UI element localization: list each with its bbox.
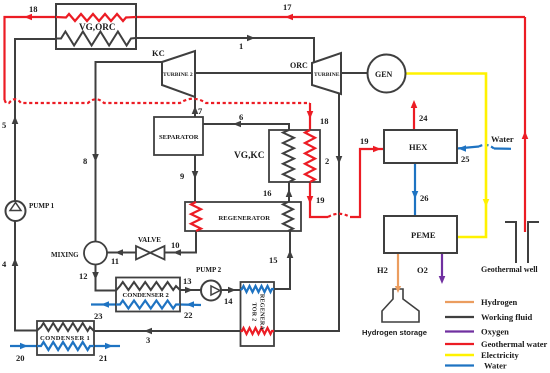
svg-text:20: 20 [16, 353, 25, 363]
svg-text:22: 22 [184, 310, 193, 320]
svg-text:REGENERA: REGENERA [259, 294, 265, 331]
svg-text:5: 5 [2, 120, 6, 130]
svg-text:TOR 2: TOR 2 [251, 303, 257, 322]
svg-text:1: 1 [239, 41, 243, 51]
pump 1 triangle [10, 203, 21, 211]
node 26 arrow [412, 191, 419, 199]
condenser 1 black coil [37, 323, 94, 331]
orange arrow into storage [397, 287, 399, 289]
svg-text:Water: Water [491, 134, 514, 144]
pump 2 triangle [211, 286, 220, 295]
node 1 arrow [247, 35, 255, 42]
svg-text:11: 11 [111, 256, 119, 266]
wire: turbine2 outlet to ORC turbine [195, 72, 312, 74]
wire: KC line 16 regenerator to VG,KC [288, 182, 290, 202]
svg-text:2: 2 [325, 156, 329, 166]
svg-text:Oxygen: Oxygen [481, 327, 509, 337]
legend: Water [445, 364, 474, 366]
svg-text:8: 8 [83, 156, 87, 166]
svg-text:PEME: PEME [411, 230, 436, 240]
wire: purple oxygen line O2 [441, 253, 443, 278]
purple arrow down [439, 276, 446, 284]
svg-text:VG,ORC: VG,ORC [79, 22, 116, 32]
wire: working fluid condenser1 to pump1 to VG,ORC lines 4,5 [15, 39, 56, 331]
node 3 arrow [144, 328, 152, 335]
svg-text:19: 19 [360, 136, 369, 146]
svg-text:Geothermal well: Geothermal well [481, 265, 538, 274]
svg-text:Hydrogen: Hydrogen [481, 297, 517, 307]
svg-text:23: 23 [94, 311, 103, 321]
svg-text:9: 9 [180, 171, 184, 181]
node 18 arrow top left [24, 14, 32, 21]
wire: geothermal red line 19 VG,KC down [310, 182, 328, 217]
wire: KC line 10 regenerator to valve [165, 231, 197, 253]
label REGENERATOR 2 rotated [251, 294, 265, 331]
node 17 arrow [285, 14, 293, 21]
svg-text:CONDENSER 2: CONDENSER 2 [123, 292, 170, 299]
svg-text:12: 12 [79, 271, 88, 281]
node 10 arrow [173, 249, 181, 256]
wire: geothermal red dashed line with hops [5, 99, 311, 103]
wire: blue water into HEX line 25 with dashed hop over yellow [494, 147, 511, 150]
wire: KC line 14 pump2 to regenerator2 [221, 289, 241, 291]
svg-text:19: 19 [316, 195, 325, 205]
svg-text:SEPARATOR: SEPARATOR [159, 134, 199, 141]
wire: KC line 11 valve to mixing [107, 252, 137, 254]
svg-text:Geothermal water: Geothermal water [481, 339, 548, 349]
wire: geothermal red into VG,KC line 18 [309, 103, 311, 130]
svg-text:TURBINE: TURBINE [314, 72, 340, 78]
svg-text:GEN: GEN [375, 70, 393, 79]
svg-text:ORC: ORC [290, 61, 308, 70]
svg-text:CONDENSER 1: CONDENSER 1 [40, 335, 90, 342]
generator GEN circle [368, 55, 406, 93]
svg-text:VALVE: VALVE [138, 236, 161, 244]
condenser 2 box [116, 278, 180, 312]
svg-text:18: 18 [320, 116, 329, 126]
node 2 arrow [336, 156, 343, 164]
regenerator red coil [191, 202, 201, 231]
svg-text:VG,KC: VG,KC [234, 151, 265, 161]
node 13 arrow [185, 287, 193, 294]
node 12 arrow [92, 272, 99, 280]
separator box [154, 117, 203, 155]
mixing circle [84, 242, 107, 265]
svg-text:O2: O2 [417, 265, 428, 275]
legend: Hydrogen [445, 301, 474, 303]
svg-text:H2: H2 [377, 265, 388, 275]
svg-text:16: 16 [263, 188, 272, 198]
wire: KC line 6 VG,KC to separator [203, 124, 289, 130]
ORC turbine [312, 53, 341, 94]
wire: KC line 8 turbine2 to mixing [96, 62, 163, 242]
svg-text:25: 25 [461, 154, 470, 164]
node 18 arrow into VG,KC [307, 111, 314, 119]
wire: yellow electricity GEN to PEME [405, 74, 486, 238]
wire: working fluid line 2/3 ORC turbine down and left to condenser1 [94, 94, 339, 332]
svg-text:Electricity: Electricity [481, 350, 520, 360]
node 20 arrow [20, 343, 28, 350]
VG,ORC black coil [56, 32, 136, 46]
svg-text:KC: KC [152, 48, 165, 58]
wire: geothermal red line 18 VG,ORC exit left and down [5, 17, 57, 100]
wire: orange hydrogen line H2 [397, 253, 399, 287]
turbine 2 KC [162, 51, 195, 97]
valve bowtie [136, 246, 165, 260]
wire: KC line 15 regenerator2 to regenerator [274, 231, 290, 289]
svg-text:15: 15 [269, 255, 278, 265]
node 19 arrow down [307, 196, 314, 204]
svg-text:MIXING: MIXING [51, 251, 79, 259]
node 19 arrow into HEX [373, 146, 381, 153]
wire: blue line 26 HEX to PEME [414, 163, 416, 216]
regenerator 2 blue coil [241, 286, 275, 292]
svg-text:3: 3 [146, 335, 150, 345]
heat exchanger VG,KC box [269, 130, 320, 182]
node 4 arrow [12, 258, 19, 266]
wire: ORC turbine to GEN [341, 72, 368, 74]
svg-text:17: 17 [283, 2, 292, 12]
svg-text:10: 10 [171, 240, 180, 250]
node 16 arrow [286, 189, 293, 197]
wire: KC line 9 separator to regenerator [194, 155, 196, 202]
legend: Geothermal water [445, 343, 474, 345]
svg-text:14: 14 [224, 296, 233, 306]
legend: Oxygen [445, 330, 474, 332]
heat exchanger VG,ORC box [56, 4, 136, 49]
svg-text:Hydrogen storage: Hydrogen storage [362, 328, 427, 337]
svg-text:21: 21 [99, 353, 108, 363]
condenser 2 blue coil [116, 301, 180, 309]
svg-text:Working fluid: Working fluid [481, 312, 533, 322]
node 6 arrow [233, 121, 241, 128]
regenerator black coil [283, 202, 293, 231]
node 25 arrow into HEX [458, 145, 466, 152]
hydrogen storage funnel [382, 289, 419, 322]
node 23 arrow [101, 301, 109, 308]
wire: geothermal red line 24 out of HEX [413, 103, 415, 130]
node 5 arrow [12, 116, 19, 124]
condenser 2 black coil [116, 282, 180, 291]
wire: geothermal red line 19 to HEX [350, 149, 384, 217]
node 24 arrow [411, 100, 418, 108]
VG,KC black coil [283, 130, 294, 182]
wire: geothermal red line 17 top from well riser to VG,ORC [136, 16, 525, 18]
VG,KC red coil [305, 130, 315, 182]
svg-text:24: 24 [419, 113, 428, 123]
node 11 arrow [115, 249, 123, 256]
regenerator 2 box [241, 282, 275, 346]
svg-text:6: 6 [239, 112, 243, 122]
yellow arrow down [483, 199, 490, 207]
svg-text:18: 18 [29, 4, 38, 14]
svg-text:Water: Water [484, 361, 507, 371]
condenser 1 blue coil [37, 342, 94, 350]
HEX box [384, 130, 457, 163]
PEME box [384, 216, 457, 253]
node 7 arrow [192, 106, 199, 114]
node 15 arrow [287, 250, 294, 258]
legend: Working fluid [445, 316, 474, 318]
regenerator box [185, 202, 301, 231]
node 9 arrow [192, 171, 199, 179]
svg-text:PUMP 2: PUMP 2 [196, 266, 222, 274]
legend: Electricity [445, 354, 474, 357]
node 8 arrow [92, 154, 99, 162]
node 14 arrow [228, 287, 236, 294]
condenser 1 box [37, 321, 94, 355]
wire: geothermal red dashed hop over line 2 [328, 214, 350, 217]
svg-text:REGENERATOR: REGENERATOR [219, 215, 271, 222]
geothermal riser arrow up [522, 131, 529, 139]
regenerator 2 red coil [241, 328, 275, 334]
svg-text:TURBINE 2: TURBINE 2 [163, 72, 193, 78]
wire: blue water line 20-21 condenser1 [10, 345, 37, 347]
node 22 arrow [186, 301, 194, 308]
svg-text:PUMP 1: PUMP 1 [29, 202, 55, 210]
wire: working fluid line 1 VG,ORC to ORC turbine [136, 38, 314, 63]
wire: geothermal well riser red [524, 17, 526, 232]
wire: KC line 7 separator to turbine2 [194, 96, 196, 117]
node 21 arrow [105, 343, 113, 350]
svg-text:13: 13 [183, 276, 192, 286]
wire: blue water line 22-23 condenser2 [180, 303, 201, 306]
svg-text:HEX: HEX [409, 142, 428, 152]
VG,ORC red coil [56, 14, 136, 21]
pump 1 circle [6, 201, 26, 221]
wire: KC line 12 mixing to condenser2 [96, 265, 117, 291]
svg-text:26: 26 [420, 193, 429, 203]
pump 2 circle [201, 281, 221, 301]
wire: KC line 13 condenser2 to pump2 [180, 289, 202, 291]
geothermal well symbol [505, 222, 516, 263]
